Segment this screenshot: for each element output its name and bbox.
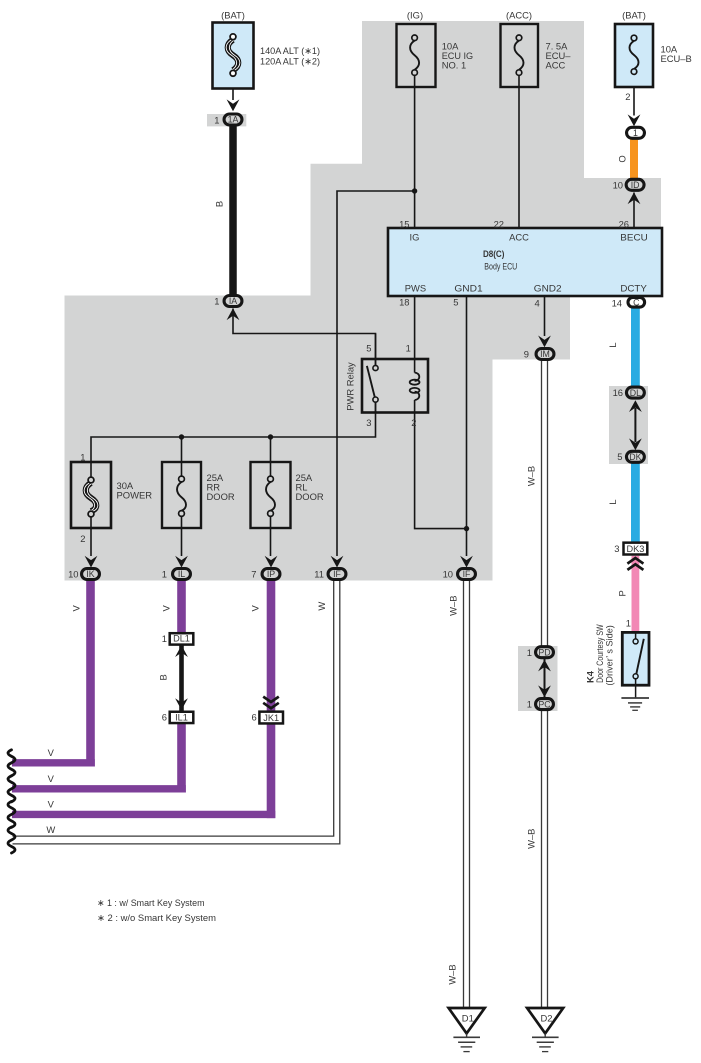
svg-text:ACC: ACC	[509, 232, 529, 243]
svg-text:V: V	[48, 799, 55, 810]
arrow into connector ID	[628, 192, 641, 204]
svg-text:IK: IK	[86, 569, 94, 579]
svg-text:W: W	[46, 824, 55, 835]
svg-text:1: 1	[162, 633, 167, 644]
arrow into connector IK	[85, 556, 98, 568]
svg-text:6: 6	[251, 712, 256, 723]
svg-text:∗ 1 : w/ Smart Key System: ∗ 1 : w/ Smart Key System	[97, 897, 205, 908]
wire: thick black B wire from 1A to IA	[229, 126, 237, 296]
svg-text:120A ALT (∗2): 120A ALT (∗2)	[260, 55, 320, 66]
svg-text:11: 11	[314, 569, 324, 580]
svg-text:POWER: POWER	[117, 490, 153, 501]
wire: bus stub down into 25A RR DOOR fuse	[181, 437, 183, 476]
svg-text:(ACC): (ACC)	[506, 10, 532, 21]
connector IP (pin 7)	[262, 569, 280, 580]
svg-text:C: C	[633, 298, 640, 308]
svg-text:B: B	[158, 674, 169, 680]
wire: branch from IG node left and down to connector IF(11)	[337, 191, 415, 556]
fuse symbol ACC	[515, 35, 524, 75]
fuse 25A RL DOOR box	[251, 462, 291, 528]
svg-text:10: 10	[443, 569, 453, 580]
component name K4 Door Courtesy SW (Driver's Side)	[584, 624, 614, 685]
wire: violet V wire from JK1 down and left to frame continuation	[267, 723, 276, 819]
svg-text:D8(C): D8(C)	[483, 248, 505, 259]
value label 7.5A ECU-ACC	[546, 41, 572, 71]
svg-text:26: 26	[619, 218, 629, 229]
svg-text:DK3: DK3	[626, 544, 644, 554]
svg-text:W–B: W–B	[526, 466, 537, 486]
wire: relay pin 3 down and left to fuse bus	[91, 403, 376, 478]
svg-text:GND1: GND1	[454, 282, 482, 293]
wire: W-B wire from IM down to PD (double line)	[541, 361, 543, 646]
arrow into connector PC	[538, 685, 551, 697]
svg-text:1: 1	[214, 115, 219, 126]
svg-text:5: 5	[366, 343, 371, 354]
wire: pink P wire from DK3 to door courtesy switch	[632, 556, 640, 633]
svg-text:1: 1	[527, 699, 532, 710]
wire: violet V wire from IL to DL1	[177, 580, 186, 633]
ground triangle D2	[527, 1008, 563, 1033]
svg-text:IF: IF	[333, 569, 341, 579]
junction block DL1 (pin 1)	[170, 633, 194, 644]
fusible link symbol 30A POWER	[84, 477, 98, 517]
svg-text:NO. 1: NO. 1	[442, 59, 467, 70]
svg-text:W–B: W–B	[447, 596, 458, 616]
switch K4 Door Courtesy SW box	[622, 632, 649, 685]
svg-text:(Driver’ s Side): (Driver’ s Side)	[603, 625, 614, 686]
gray harness region polygon	[65, 21, 662, 581]
svg-text:1: 1	[214, 296, 219, 307]
wire: ACC fuse to ECU pin 22	[518, 75, 520, 228]
wire: 30A POWER fuse bottom to arrow above IK	[90, 517, 92, 556]
svg-text:PC: PC	[538, 699, 551, 709]
svg-text:L: L	[607, 499, 618, 504]
wire: bus stub down into 25A RL DOOR fuse	[270, 437, 272, 476]
svg-text:∗ 2 : w/o Smart Key System: ∗ 2 : w/o Smart Key System	[97, 912, 216, 923]
svg-text:1: 1	[162, 569, 167, 580]
fuse symbol RL DOOR	[266, 476, 275, 516]
ground symbol below D2	[532, 1033, 559, 1051]
wire: ECU pin 5 GND1 down to arrow above IF(10)	[466, 296, 468, 556]
svg-text:22: 22	[494, 218, 504, 229]
wire: black jumper between PD and PC	[544, 657, 546, 699]
svg-text:DK: DK	[629, 452, 641, 462]
wire: connector IA down, right, to relay pin 5	[233, 309, 376, 366]
arrow into connector DL	[629, 400, 642, 412]
svg-text:1A: 1A	[228, 115, 239, 125]
value label 10A ECU IG NO.1	[442, 41, 473, 71]
wire: violet V wire from IP to JK1	[267, 580, 276, 711]
svg-text:PWR Relay: PWR Relay	[345, 362, 356, 411]
junction node: bus to RL DOOR fuse	[268, 434, 273, 439]
frame continuation squiggle at W wire	[8, 827, 15, 853]
fuse (BAT) 140A/120A ALT box	[213, 23, 254, 89]
wire: W-B wire from PC down to ground D2 (double line)	[541, 711, 543, 1009]
svg-text:JK1: JK1	[263, 713, 279, 723]
svg-text:9: 9	[524, 349, 529, 360]
fuse symbol RR DOOR	[177, 476, 186, 516]
svg-text:ACC: ACC	[546, 59, 566, 70]
arrow into junction block IL1	[175, 698, 188, 710]
arrow into connector IA	[227, 308, 240, 320]
svg-text:10: 10	[68, 569, 78, 580]
svg-text:(IG): (IG)	[407, 10, 423, 21]
arrow into connector IF(11)	[331, 556, 344, 568]
svg-text:V: V	[71, 604, 82, 611]
svg-text:(BAT): (BAT)	[221, 10, 245, 21]
svg-text:BECU: BECU	[620, 232, 648, 243]
svg-text:PD: PD	[538, 647, 550, 657]
wire: violet V wire from IL1 down and left to frame continuation	[177, 723, 186, 793]
wire: 25A RR DOOR fuse bottom to arrow above IL	[181, 516, 183, 556]
fusible link symbol ALT	[226, 34, 240, 76]
svg-text:18: 18	[399, 297, 409, 308]
svg-text:W–B: W–B	[447, 964, 458, 984]
connector 1	[627, 127, 645, 138]
svg-text:5: 5	[617, 451, 622, 462]
arrow into connector 1	[628, 114, 641, 126]
svg-text:1: 1	[633, 128, 638, 138]
arrow into connector IL	[175, 556, 188, 568]
value label 140A/120A ALT	[260, 45, 320, 66]
gray box behind connectors DL/DK	[609, 386, 648, 464]
svg-text:1: 1	[406, 343, 411, 354]
arrow into connector IP	[265, 556, 278, 568]
chevron arrows into JK1	[263, 697, 279, 709]
svg-text:IM: IM	[540, 349, 550, 359]
svg-text:DL1: DL1	[173, 634, 190, 644]
svg-text:DCTY: DCTY	[620, 282, 647, 293]
svg-text:D1: D1	[462, 1013, 474, 1024]
wire: black jumper between DL and DK	[634, 408, 636, 442]
wire: orange O wire from connector 1 to connector ID	[630, 139, 638, 179]
svg-text:6: 6	[162, 712, 167, 723]
svg-text:7: 7	[251, 569, 256, 580]
svg-text:ECU–B: ECU–B	[661, 53, 692, 64]
svg-text:10: 10	[613, 179, 623, 190]
fuse symbol ECU-B	[630, 35, 639, 74]
fuse symbol IG	[410, 35, 419, 75]
ECU box D8(C) Body ECU	[388, 228, 662, 296]
svg-text:5: 5	[453, 297, 458, 308]
frame continuation squiggle at V wire 1	[8, 750, 15, 776]
connector IF (pin 11)	[328, 569, 346, 580]
svg-text:2: 2	[625, 91, 630, 102]
svg-text:P: P	[617, 590, 628, 596]
svg-text:DL: DL	[630, 388, 641, 398]
svg-text:(BAT): (BAT)	[622, 10, 646, 21]
svg-text:V: V	[250, 604, 261, 611]
arrow into connector IM	[538, 336, 551, 348]
svg-text:L: L	[607, 342, 618, 347]
svg-text:V: V	[48, 747, 55, 758]
svg-text:16: 16	[613, 387, 623, 398]
fuse 25A RR DOOR box	[162, 462, 201, 528]
wire: relay coil pin 2 down then right to GND1 junction	[415, 400, 467, 529]
connector C (pin 14)	[628, 298, 645, 308]
svg-text:1: 1	[626, 618, 631, 629]
svg-text:ID: ID	[631, 180, 640, 190]
wire: violet V wire from IK down and left to frame continuation	[86, 580, 95, 767]
wire: IG fuse to ECU pin 15	[414, 75, 416, 228]
wire: cyan L wire from C to DL	[631, 308, 640, 387]
connector DL (pin 16)	[626, 387, 644, 398]
frame continuation squiggle at V wire 3	[8, 801, 15, 827]
svg-text:V: V	[161, 604, 172, 611]
value label 30A POWER	[117, 480, 153, 501]
svg-text:PWS: PWS	[405, 282, 426, 293]
svg-text:2: 2	[411, 417, 416, 428]
connector IF (pin 10)	[458, 569, 476, 580]
svg-text:15: 15	[399, 218, 409, 229]
arrow into junction block DL1	[175, 645, 188, 657]
svg-text:DOOR: DOOR	[207, 491, 235, 502]
fuse (BAT) 10A ECU-B box	[615, 24, 653, 87]
wire: (BAT) ALT fuse down to arrow above 1A	[232, 89, 234, 101]
wire: ECU pin 18 PWS down to relay coil pin 1	[414, 296, 416, 373]
svg-text:3: 3	[614, 543, 619, 554]
junction node: coil ground joins GND1 wire	[464, 526, 469, 531]
svg-text:3: 3	[366, 417, 371, 428]
svg-text:W: W	[316, 602, 327, 611]
svg-text:W–B: W–B	[526, 829, 537, 849]
connector IM (pin 9)	[536, 349, 554, 360]
arrow into connector DK	[629, 438, 642, 450]
wire: ECU-B fuse down to arrow above connector 1	[633, 74, 635, 115]
wire: white W wire from IF(11) down and left to frame continuation (double line)	[13, 581, 334, 836]
svg-text:14: 14	[612, 298, 622, 309]
relay coil pins 1-2	[410, 373, 420, 400]
gray box behind connectors PD/PC	[518, 646, 558, 711]
ground symbol below D1	[453, 1033, 480, 1051]
svg-text:4: 4	[534, 298, 539, 309]
svg-text:D2: D2	[541, 1013, 553, 1024]
wire: cyan L wire from DK to DK3	[631, 463, 640, 542]
connector PD (pin 1)	[536, 647, 554, 658]
fuse (IG) 10A ECU IG NO.1 box	[397, 24, 436, 87]
svg-text:B: B	[214, 201, 225, 207]
frame continuation squiggle at V wire 2	[8, 776, 15, 802]
wire: W-B wire from IF(10) down to ground D1 (double line)	[463, 581, 465, 1008]
switch contact K4	[633, 633, 644, 698]
svg-text:IA: IA	[229, 296, 237, 306]
ground symbol below K4	[621, 698, 649, 710]
svg-text:IL: IL	[178, 569, 185, 579]
value label 25A RL DOOR	[296, 472, 324, 502]
svg-text:IP: IP	[267, 569, 275, 579]
svg-text:2: 2	[80, 533, 85, 544]
connector ID (pin 10)	[626, 179, 644, 190]
connector IA (pin 1)	[224, 296, 242, 307]
svg-text:1: 1	[80, 452, 85, 463]
arrow into connector IF(10)	[460, 556, 473, 568]
svg-text:GND2: GND2	[534, 282, 562, 293]
svg-text:IL1: IL1	[175, 713, 188, 723]
connector DK (pin 5)	[626, 451, 644, 462]
svg-text:IF: IF	[463, 569, 471, 579]
wire: ECU pin 4 GND2 down to arrow above IM	[544, 296, 546, 336]
svg-text:V: V	[48, 773, 55, 784]
wire: 25A RL DOOR fuse bottom to arrow above IP	[270, 516, 272, 556]
arrow into connector 1A	[227, 99, 240, 111]
fuse 30A POWER box	[71, 462, 111, 528]
junction node: IG branch	[412, 188, 417, 193]
connector IL (pin 1)	[173, 569, 191, 580]
svg-text:IG: IG	[410, 232, 420, 243]
gray band behind connector 1A	[207, 114, 246, 126]
junction block DK3 (pin 3)	[624, 543, 648, 555]
value label 10A ECU-B	[661, 44, 692, 65]
component name D8(C) Body ECU	[483, 248, 518, 272]
connector 1A (pin 1)	[224, 114, 242, 125]
svg-text:O: O	[616, 155, 627, 162]
svg-text:DOOR: DOOR	[296, 491, 324, 502]
value label 25A RR DOOR	[207, 472, 235, 502]
ground triangle D1	[449, 1008, 485, 1033]
junction block JK1 (pin 6)	[259, 712, 283, 724]
wire: black B jumper between DL1 and IL1	[179, 643, 184, 712]
arrow into connector PD	[538, 660, 551, 672]
relay switch contact pins 5-3	[367, 334, 378, 413]
connector IK (pin 10)	[82, 569, 100, 580]
junction node: bus to RR DOOR fuse	[179, 434, 184, 439]
chevron arrows into DK3	[627, 558, 643, 570]
relay PWR Relay box	[362, 359, 428, 413]
svg-text:1: 1	[527, 647, 532, 658]
connector PC (pin 1)	[536, 699, 554, 710]
junction block IL1 (pin 6)	[170, 712, 194, 723]
fuse (ACC) 7.5A ECU-ACC box	[501, 24, 539, 87]
wire: connector ID down to ECU pin 26 BECU	[633, 193, 635, 229]
svg-text:Body ECU: Body ECU	[484, 261, 517, 272]
